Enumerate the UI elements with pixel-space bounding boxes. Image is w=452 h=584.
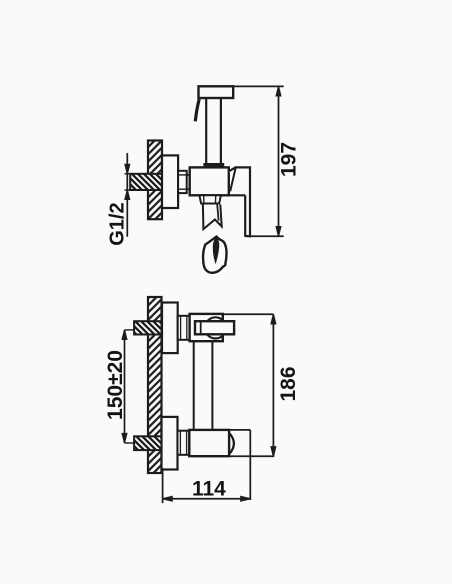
trigger lever of hand shower xyxy=(195,99,199,121)
hose connector flange on body top (dark) xyxy=(203,163,224,168)
connection nut (side view) xyxy=(178,171,187,193)
supply pipe stub (side view, hatched) xyxy=(125,174,163,190)
shower holder fork (side view) xyxy=(203,205,222,230)
escutcheon flange (side view) xyxy=(162,155,178,208)
valve body (side view) xyxy=(190,167,229,195)
lower valve body (front view) xyxy=(189,430,234,456)
upper supply pipe (front view, hatched) xyxy=(125,321,162,334)
dimension 114 line with arrows xyxy=(163,497,251,502)
cartridge circle inside upper body xyxy=(205,317,226,338)
dimension 186 extension lines xyxy=(223,314,274,456)
hand shower head (side view) xyxy=(199,86,234,98)
lower escutcheon flange (front view) xyxy=(162,417,178,470)
dimension 114 extension lines xyxy=(163,430,251,503)
dimension G1/2 leader line xyxy=(125,153,130,237)
body column (front view) xyxy=(194,341,213,430)
spray droplet icon xyxy=(203,237,226,273)
mixer handle bar (front view) xyxy=(195,321,234,334)
lower supply pipe (front view, hatched) xyxy=(125,436,162,450)
wall cross-section (front view) xyxy=(148,297,162,473)
dimension 197 extension lines xyxy=(233,86,284,236)
dimension 197 line with arrows xyxy=(276,86,281,236)
mixer handle (side view) xyxy=(229,167,250,236)
outlet nut below body (side view) xyxy=(199,195,221,203)
svg-text:114: 114 xyxy=(192,478,226,501)
svg-text:150±20: 150±20 xyxy=(104,350,127,420)
svg-text:G1/2: G1/2 xyxy=(107,202,129,245)
svg-text:197: 197 xyxy=(277,142,300,177)
svg-text:186: 186 xyxy=(277,366,300,401)
upper valve body (front view) xyxy=(190,314,223,341)
upper connection nut (front view) xyxy=(178,316,190,340)
riser tube (side view) xyxy=(206,98,221,163)
upper escutcheon flange (front view) xyxy=(162,303,178,354)
lower connection nut (front view) xyxy=(178,431,190,455)
dimension 150±20 line with arrows xyxy=(122,330,127,443)
neck between nut and body (side view) xyxy=(187,175,190,189)
wall cross-section (side view) xyxy=(148,141,162,220)
dimension 186 line with arrows xyxy=(271,314,276,456)
